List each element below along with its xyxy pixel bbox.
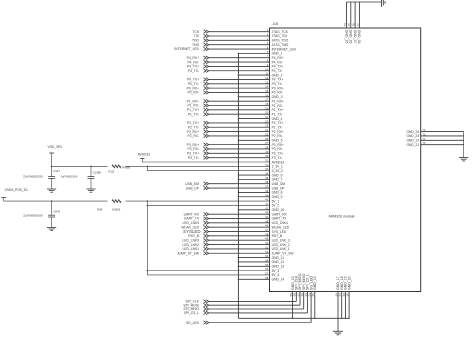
wire top ground run [347, 1, 382, 3]
svg-text:51: 51 [265, 245, 268, 249]
svg-text:GND_28: GND_28 [357, 30, 361, 44]
port chevron pin 17 [204, 99, 209, 102]
svg-text:P2_RX-: P2_RX- [187, 134, 199, 138]
svg-text:22: 22 [265, 119, 268, 123]
port chevron pin 44 [204, 217, 209, 220]
wire GND stub pin 55 [238, 265, 269, 267]
wire AVDD33 to pin 31 [142, 161, 269, 163]
svg-text:GND_14: GND_14 [272, 278, 285, 282]
svg-text:INTERNET_LED: INTERNET_LED [174, 47, 199, 51]
port chevron pin 14 [204, 86, 209, 89]
port chevron pin 5 [204, 47, 209, 50]
wire signal pin 24 P2_RX+ [209, 131, 270, 133]
wire signal pin 7 P4_RX+ [209, 57, 270, 59]
port chevron pin 22 [204, 121, 209, 124]
svg-text:11: 11 [266, 72, 269, 76]
wire 3.3V line resistor to pin 32 [126, 165, 270, 167]
svg-text:GND_25: GND_25 [344, 30, 348, 44]
wire 3.3V line to resistor [52, 165, 108, 167]
svg-text:45: 45 [265, 219, 268, 223]
wire GND stub pin 21 [238, 118, 269, 120]
port chevron SPI_CLK [204, 300, 209, 303]
wire signal pin 20 P1_TX- [209, 113, 270, 115]
svg-text:27: 27 [265, 141, 268, 145]
ground right [459, 158, 468, 161]
wire SPI_CLK [209, 300, 297, 302]
wire SG_LED [209, 322, 312, 324]
junction [51, 166, 53, 168]
wire C127 to ground [51, 178, 53, 189]
junction [147, 205, 149, 207]
wire signal pin 10 P4_TX- [209, 70, 270, 72]
wire bottom stub pin 68 GND_19 [344, 292, 346, 319]
port chevron pin 2 [204, 34, 209, 37]
svg-text:P0_RX-: P0_RX- [187, 91, 199, 95]
wire bottom stub pin 62 SPI_MISO [303, 292, 305, 310]
junction [147, 166, 149, 168]
wire VDD_3P3 stem [51, 153, 53, 176]
svg-text:25: 25 [265, 132, 268, 136]
wire signal pin 19 P1_TX+ [209, 109, 270, 111]
port chevron pin 51 [204, 247, 209, 250]
wire signal pin 17 P1_RX+ [209, 100, 270, 102]
svg-text:35: 35 [265, 176, 268, 180]
svg-text:19: 19 [265, 106, 268, 110]
wire signal pin 8 P4_RX- [209, 61, 270, 63]
wire SPI_MOSI [209, 304, 300, 306]
ground C1388 [86, 189, 95, 192]
junction [292, 318, 293, 319]
wire top stub pin 77 GND_28 [358, 2, 360, 28]
port chevron pin 47 [204, 230, 209, 233]
svg-text:22uF/0805/020V: 22uF/0805/020V [23, 214, 43, 218]
svg-text:18: 18 [265, 102, 268, 106]
wire signal pin 30 P3_TX- [209, 157, 270, 159]
wire signal pin 1 JTAG_TCK [209, 31, 270, 33]
svg-text:38: 38 [265, 189, 268, 193]
wire signal pin 9 P4_TX+ [209, 65, 270, 67]
wire signal pin 29 P3_TX+ [209, 152, 270, 154]
wire GND stub pin 42 [238, 209, 269, 211]
wire right ground drop [463, 132, 465, 158]
port chevron pin 30 [204, 156, 209, 159]
svg-text:24: 24 [265, 128, 268, 132]
svg-text:58: 58 [265, 276, 268, 280]
wire GND stub pin 39 [238, 196, 269, 198]
svg-text:77: 77 [356, 23, 360, 26]
capacitor C127 [48, 177, 55, 179]
junction [238, 96, 239, 97]
wire 3.3V branch vertical [146, 166, 148, 170]
wire AVDD33 stem [141, 158, 143, 162]
wire to pin 56 5V_3 [147, 270, 269, 272]
port chevron pin 19 [204, 108, 209, 111]
port chevron pin 48 [204, 234, 209, 237]
wire signal pin 48 RST_B [209, 235, 270, 237]
svg-text:75: 75 [347, 23, 351, 26]
svg-text:29: 29 [265, 150, 268, 154]
svg-text:R88: R88 [97, 207, 102, 211]
port chevron pin 49 [204, 239, 209, 242]
svg-text:74: 74 [343, 23, 347, 26]
wire signal pin 47 SYS_LED [209, 231, 270, 233]
ground C127 [47, 189, 56, 192]
port chevron pin 37 [204, 186, 209, 189]
port chevron SPI_MOSI [204, 304, 209, 307]
wire GND stub pin 6 [238, 52, 269, 54]
power flag VDDA_PCB_3G [1, 197, 6, 199]
wire VDDA rail to resistor [4, 200, 108, 202]
svg-text:69: 69 [346, 293, 350, 297]
junction [147, 270, 149, 272]
svg-text:54: 54 [265, 258, 268, 262]
power flag AVDD33 [140, 157, 144, 159]
wire top stub pin 75 GND_26 [350, 2, 352, 28]
svg-text:1uF/0402/16V: 1uF/0402/16V [61, 174, 78, 178]
wire signal pin 12 P0_TX+ [209, 78, 270, 80]
junction [348, 318, 349, 319]
junction [314, 318, 315, 319]
wire GND stub pin 54 [238, 261, 269, 263]
port chevron pin 8 [204, 60, 209, 63]
svg-text:C843: C843 [53, 210, 60, 214]
svg-text:GND_26: GND_26 [349, 30, 353, 44]
svg-text:53: 53 [265, 254, 268, 258]
wire top stub pin 76 GND_27 [354, 2, 356, 28]
junction [238, 74, 239, 75]
svg-text:39: 39 [265, 193, 268, 197]
svg-text:28: 28 [265, 145, 268, 149]
wire signal pin 2 JTAG_TDI [209, 35, 270, 37]
port chevron pin 43 [204, 212, 209, 215]
wire bottom stub pin 63 SPI_CS_L [306, 292, 308, 313]
wire signal pin 14 P0_RX+ [209, 87, 270, 89]
svg-text:P4_TX-: P4_TX- [188, 69, 199, 73]
wire signal pin 4 JATG_TMS [209, 44, 270, 46]
wire GND stub pin 38 [238, 191, 269, 193]
wire right stub pin 70 GND_21 [421, 144, 464, 146]
port chevron pin 9 [204, 65, 209, 68]
junction [90, 166, 92, 168]
svg-text:GND_27: GND_27 [353, 30, 357, 44]
port chevron pin 10 [204, 69, 209, 72]
svg-text:JU5: JU5 [273, 22, 279, 26]
svg-text:R111: R111 [109, 170, 116, 174]
port chevron pin 46 [204, 225, 209, 228]
ground bottom main [333, 331, 343, 335]
wire signal pin 50 LED_LNK_2 [209, 244, 270, 246]
svg-text:AVDD33: AVDD33 [138, 152, 150, 156]
wire GND stub pin 58 [238, 278, 269, 280]
svg-text:22uF/0805/020V: 22uF/0805/020V [23, 174, 43, 178]
port chevron pin 7 [204, 56, 209, 59]
wire signal pin 15 P0_RX- [209, 91, 270, 93]
junction [238, 174, 239, 175]
svg-text:49: 49 [265, 237, 268, 241]
junction [238, 140, 239, 141]
junction [341, 318, 342, 319]
svg-text:30: 30 [265, 154, 268, 158]
svg-text:65: 65 [311, 293, 315, 297]
wire signal pin 46 WLAN_LED [209, 226, 270, 228]
wire signal pin 36 USB_DM [209, 183, 270, 185]
svg-text:17: 17 [265, 98, 268, 102]
wire C843 to ground [51, 217, 53, 227]
svg-text:71: 71 [422, 137, 425, 141]
IC JU5 ARM926 module body [270, 28, 421, 292]
junction [238, 257, 239, 258]
port chevron pin 13 [204, 82, 209, 85]
power flag VDD_3P3 [49, 152, 54, 154]
wire signal pin 3 JATG_TDO [209, 39, 270, 41]
wire signal pin 43 UART_RX [209, 213, 270, 215]
wire GND bus bottom horizontal [238, 317, 349, 319]
wire GND stub pin 11 [238, 74, 269, 76]
svg-text:20: 20 [265, 111, 268, 115]
port chevron SG_LED [204, 321, 209, 324]
wire bottom stub pin 67 GND_18 [341, 292, 343, 319]
wire right stub pin 71 GND_22 [421, 139, 464, 141]
junction [238, 266, 239, 267]
svg-text:43: 43 [265, 211, 268, 215]
port chevron pin 1 [204, 30, 209, 33]
wire GND stub pin 35 [238, 178, 269, 180]
svg-text:0/0603: 0/0603 [112, 207, 121, 211]
wire right stub pin 72 GND_23 [421, 135, 464, 137]
svg-text:ARM926 module: ARM926 module [329, 214, 355, 218]
wire bottom stub pin 59 GND_15 [292, 292, 294, 319]
resistor R456 0R [112, 165, 121, 168]
svg-text:73: 73 [422, 128, 425, 132]
port chevron pin 50 [204, 243, 209, 246]
port chevron pin 29 [204, 152, 209, 155]
junction [238, 118, 239, 119]
wire top stub pin 74 GND_25 [346, 2, 348, 28]
junction [238, 179, 239, 180]
svg-text:R4580: R4580 [122, 165, 130, 169]
svg-text:37: 37 [265, 185, 268, 189]
svg-text:14: 14 [265, 85, 268, 89]
junction [147, 200, 149, 202]
svg-text:GND_16: GND_16 [313, 276, 317, 290]
svg-text:36: 36 [265, 180, 268, 184]
svg-text:44: 44 [265, 215, 268, 219]
wire right stub pin 73 GND_24 [421, 131, 464, 133]
wire VDDA rail resistor to pin 40 [126, 200, 270, 202]
wire VDDA flag stem [3, 198, 5, 202]
wire signal pin 13 P0_TX- [209, 83, 270, 85]
svg-text:52: 52 [265, 250, 268, 254]
svg-text:JUMP_ST_SW: JUMP_ST_SW [177, 251, 200, 255]
wire signal pin 23 P2_TX- [209, 126, 270, 128]
junction [238, 279, 239, 280]
port chevron SPI_MISO [204, 307, 209, 310]
svg-text:15: 15 [265, 89, 268, 93]
wire bottom stub pin 66 GND_17 [337, 292, 339, 319]
svg-text:70: 70 [422, 141, 425, 145]
svg-text:72: 72 [422, 132, 425, 136]
junction [238, 53, 239, 54]
svg-text:12: 12 [265, 76, 268, 80]
wire GND stub pin 34 [238, 174, 269, 176]
svg-text:VDDA_PCB_3G: VDDA_PCB_3G [5, 188, 29, 192]
wire GND stub pin 26 [238, 139, 269, 141]
junction [238, 209, 239, 210]
port chevron pin 27 [204, 143, 209, 146]
port chevron pin 20 [204, 113, 209, 116]
svg-text:10: 10 [265, 67, 268, 71]
port chevron pin 3 [204, 39, 209, 42]
wire to pin 41 5V_2 [147, 204, 269, 206]
port chevron pin 25 [204, 134, 209, 137]
wire to bottom ground [337, 318, 339, 331]
junction [51, 200, 53, 202]
wire signal pin 5 INTERNET_LED [209, 48, 270, 50]
wire signal pin 18 P1_RX- [209, 105, 270, 107]
svg-text:16: 16 [265, 93, 268, 97]
svg-text:C1388: C1388 [93, 170, 102, 174]
wire C1388 stem [90, 166, 92, 176]
svg-text:13: 13 [265, 80, 268, 84]
port chevron pin 28 [204, 147, 209, 150]
svg-text:SG_LED: SG_LED [186, 321, 200, 325]
wire GND stub pin 53 [238, 257, 269, 259]
port chevron pin 36 [204, 182, 209, 185]
wire SPI_MISO [209, 308, 304, 310]
ground C843 [47, 227, 56, 230]
port chevron pin 45 [204, 221, 209, 224]
svg-text:GND_20: GND_20 [347, 276, 351, 290]
junction [238, 196, 239, 197]
junction [238, 261, 239, 262]
svg-text:VDD_3P3: VDD_3P3 [48, 145, 62, 149]
wire GND bus vertical [237, 53, 239, 318]
svg-text:76: 76 [352, 23, 356, 26]
svg-text:47: 47 [265, 228, 268, 232]
wire signal pin 45 LED_LNK4 [209, 222, 270, 224]
wire bottom stub pin 61 SPI_MOSI [299, 292, 301, 306]
wire 5V vertical branch [146, 201, 148, 275]
svg-text:21: 21 [265, 115, 268, 119]
junction [238, 192, 239, 193]
wire SPI_CS_L [209, 312, 308, 314]
wire signal pin 22 P2_TX+ [209, 122, 270, 124]
wire signal pin 49 LED_LNK_3 [209, 239, 270, 241]
svg-text:P3_TX-: P3_TX- [188, 156, 199, 160]
wire signal pin 51 LED_LNK_1 [209, 248, 270, 250]
svg-text:SPI_CS_L: SPI_CS_L [184, 311, 200, 315]
svg-text:48: 48 [265, 232, 268, 236]
wire bottom stub pin 64 SG_LED [310, 292, 312, 323]
svg-text:USB_DP: USB_DP [186, 186, 200, 190]
wire signal pin 52 JUMP_ST_SW [209, 252, 270, 254]
wire C1388 to ground [90, 178, 92, 189]
port chevron pin 23 [204, 126, 209, 129]
capacitor C1388 [88, 177, 95, 179]
wire bottom stub pin 60 SPI_CLK [295, 292, 297, 302]
junction [337, 318, 338, 319]
svg-text:50: 50 [265, 241, 268, 245]
port chevron pin 4 [204, 43, 209, 46]
port chevron pin 12 [204, 78, 209, 81]
svg-text:C127: C127 [53, 169, 60, 173]
svg-text:46: 46 [265, 224, 268, 228]
wire 3.3V branch to pin 33 [147, 170, 269, 172]
port chevron pin 18 [204, 104, 209, 107]
port chevron pin 15 [204, 91, 209, 94]
svg-text:GND_21: GND_21 [407, 143, 420, 147]
wire signal pin 37 USB_DP [209, 187, 270, 189]
svg-text:34: 34 [265, 172, 268, 176]
wire signal pin 28 P3_RX- [209, 148, 270, 150]
svg-text:P1_TX-: P1_TX- [188, 112, 199, 116]
resistor R88 0R [112, 200, 121, 203]
wire to pin 57 5V_4 [147, 274, 269, 276]
capacitor C843 [48, 215, 55, 217]
svg-text:26: 26 [265, 137, 268, 141]
svg-text:42: 42 [265, 206, 268, 210]
wire signal pin 44 UART_TX [209, 217, 270, 219]
port chevron pin 24 [204, 130, 209, 133]
port chevron SPI_CS_L [204, 311, 209, 314]
wire C843 stem [51, 201, 53, 215]
junction [345, 318, 346, 319]
port chevron pin 52 [204, 252, 209, 255]
wire bottom stub pin 69 GND_20 [348, 292, 350, 319]
svg-text:55: 55 [265, 263, 268, 267]
wire bottom stub pin 65 GND_16 [314, 292, 316, 319]
wire signal pin 27 P3_RX+ [209, 144, 270, 146]
wire signal pin 25 P2_RX- [209, 135, 270, 137]
wire GND stub pin 16 [238, 96, 269, 98]
ground top (sideways) [382, 0, 385, 7]
svg-text:23: 23 [265, 124, 268, 128]
